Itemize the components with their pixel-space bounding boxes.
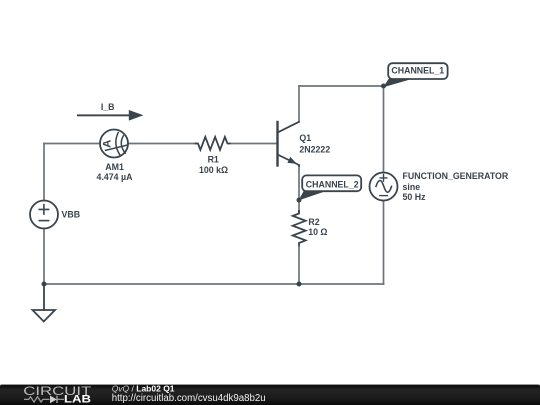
ammeter AM1 needle — [106, 145, 128, 150]
node ground junction — [42, 282, 47, 287]
svg-text:100 kΩ: 100 kΩ — [199, 165, 228, 175]
flag CHANNEL_1 tail — [383, 79, 413, 88]
wire right rail lower — [383, 201, 385, 285]
logo resistor zigzag and diode — [24, 396, 64, 403]
svg-text:4.474 µA: 4.474 µA — [97, 172, 134, 182]
wire left top horizontal to ammeter — [44, 143, 100, 145]
wire left rail vertical — [43, 144, 45, 285]
ground lead — [43, 284, 45, 310]
wire ammeter to R1 — [128, 143, 197, 145]
svg-text:CHANNEL_2: CHANNEL_2 — [306, 179, 359, 189]
function generator sine — [376, 181, 392, 193]
resistor R2 — [293, 211, 306, 245]
flag CHANNEL_2 box — [302, 175, 361, 191]
transistor Q1 collector — [278, 122, 300, 133]
svg-text:I_B: I_B — [101, 102, 115, 112]
label arrow I_B line — [77, 114, 130, 116]
node at CHANNEL_1 — [381, 84, 386, 89]
svg-text:CHANNEL_1: CHANNEL_1 — [391, 66, 444, 76]
svg-text:Q1: Q1 — [299, 133, 311, 143]
svg-text:2N2222: 2N2222 — [299, 145, 330, 155]
node R2 bottom — [297, 282, 302, 287]
transistor Q1 emitter arrow — [287, 157, 296, 164]
wire collector vertical — [298, 86, 300, 122]
svg-text:10 Ω: 10 Ω — [308, 227, 327, 237]
voltage source VBB minus — [39, 220, 48, 222]
resistor R1 — [196, 137, 230, 150]
svg-text:50 Hz: 50 Hz — [403, 192, 427, 202]
wire top rail — [299, 85, 384, 87]
wire right rail upper — [383, 86, 385, 173]
wire R1 to base — [232, 143, 278, 145]
wire emitter vertical — [298, 166, 300, 201]
node at CHANNEL_2 — [297, 198, 302, 203]
svg-text:R1: R1 — [208, 154, 219, 164]
voltage source VBB plus — [39, 205, 48, 214]
svg-text:FUNCTION_GENERATOR: FUNCTION_GENERATOR — [403, 171, 509, 181]
function generator plus — [380, 175, 387, 182]
transistor Q1 base bar — [276, 122, 278, 166]
ground — [33, 310, 56, 322]
wire R2 to bottom rail — [298, 247, 300, 284]
wire bottom rail — [44, 283, 384, 285]
ammeter AM1 circle — [100, 130, 128, 158]
function generator minus — [380, 195, 388, 197]
label arrow I_B head — [129, 110, 144, 121]
transistor Q1 emitter — [278, 155, 300, 167]
svg-text:VBB: VBB — [62, 210, 81, 220]
flag CHANNEL_1 box — [388, 63, 447, 79]
flag CHANNEL_2 tail — [299, 191, 327, 201]
logo diode triangle — [50, 396, 57, 404]
voltage source VBB circle — [30, 201, 58, 229]
svg-text:A: A — [102, 140, 114, 148]
ammeter AM1 meter arcs — [116, 133, 125, 156]
svg-text:sine: sine — [403, 182, 421, 192]
footer bar — [0, 384, 540, 405]
wire node to R2 — [298, 200, 300, 212]
function generator circle — [370, 173, 398, 201]
svg-text:AM1: AM1 — [105, 162, 124, 172]
svg-text:R2: R2 — [308, 217, 319, 227]
